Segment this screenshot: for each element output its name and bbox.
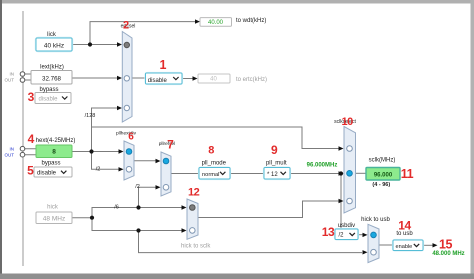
svg-text:hick: hick xyxy=(47,205,59,211)
svg-text:usbdiv: usbdiv xyxy=(338,223,355,229)
svg-text:12: 12 xyxy=(188,187,200,199)
svg-text:13: 13 xyxy=(322,225,335,239)
svg-text:hick to sclk: hick to sclk xyxy=(181,244,211,250)
svg-text:OUT: OUT xyxy=(5,152,15,157)
svg-text:to ertc(kHz): to ertc(kHz) xyxy=(236,77,267,83)
svg-text:96.000: 96.000 xyxy=(374,172,393,178)
svg-text:4: 4 xyxy=(28,132,35,146)
svg-text:sclk(MHz): sclk(MHz) xyxy=(369,157,396,163)
svg-text:IN: IN xyxy=(10,146,15,151)
svg-text:40: 40 xyxy=(210,77,217,83)
svg-text:IN: IN xyxy=(10,71,15,76)
svg-text:32.768: 32.768 xyxy=(42,75,61,82)
svg-text:disable: disable xyxy=(39,97,59,103)
svg-text:14: 14 xyxy=(398,219,411,233)
svg-text:bypass: bypass xyxy=(41,160,60,166)
svg-text:enable: enable xyxy=(396,244,413,250)
svg-text:OUT: OUT xyxy=(5,77,15,82)
svg-text:2: 2 xyxy=(123,20,129,32)
svg-text:bypass: bypass xyxy=(39,87,58,93)
svg-text:pll_mult: pll_mult xyxy=(266,160,287,166)
svg-text:8: 8 xyxy=(208,145,214,157)
svg-text:40.00: 40.00 xyxy=(208,20,224,26)
svg-text:/128: /128 xyxy=(85,113,96,119)
svg-text:/2: /2 xyxy=(96,166,101,172)
svg-text:hext(4-25MHz): hext(4-25MHz) xyxy=(36,138,76,144)
svg-text:disable: disable xyxy=(37,171,57,177)
svg-text:8: 8 xyxy=(52,149,56,156)
svg-text:lick: lick xyxy=(47,32,57,38)
svg-text:6: 6 xyxy=(128,132,134,143)
svg-text:lext(kHz): lext(kHz) xyxy=(40,64,64,70)
svg-text:pll_mode: pll_mode xyxy=(202,160,227,166)
svg-text:/2: /2 xyxy=(339,233,345,239)
svg-text:disable: disable xyxy=(148,78,168,84)
svg-text:40 kHz: 40 kHz xyxy=(44,42,64,49)
svg-text:* 12: * 12 xyxy=(267,172,278,178)
svg-text:(4 - 96): (4 - 96) xyxy=(372,182,390,188)
svg-text:15: 15 xyxy=(439,238,453,252)
svg-text:/6: /6 xyxy=(114,205,119,211)
svg-text:10: 10 xyxy=(341,116,353,128)
svg-text:5: 5 xyxy=(27,163,34,177)
svg-text:48 MHz: 48 MHz xyxy=(43,216,65,223)
svg-text:96.000MHz: 96.000MHz xyxy=(307,162,338,168)
svg-text:11: 11 xyxy=(401,167,414,181)
svg-text:7: 7 xyxy=(167,138,174,152)
svg-text:1: 1 xyxy=(160,58,167,72)
svg-text:to wdt(kHz): to wdt(kHz) xyxy=(236,18,266,24)
svg-text:hick to usb: hick to usb xyxy=(361,217,390,223)
svg-text:9: 9 xyxy=(271,143,278,157)
svg-text:normal: normal xyxy=(202,172,219,178)
svg-text:3: 3 xyxy=(28,90,35,104)
svg-text:48.000 MHz: 48.000 MHz xyxy=(432,251,464,257)
svg-text:/2: /2 xyxy=(135,184,140,190)
